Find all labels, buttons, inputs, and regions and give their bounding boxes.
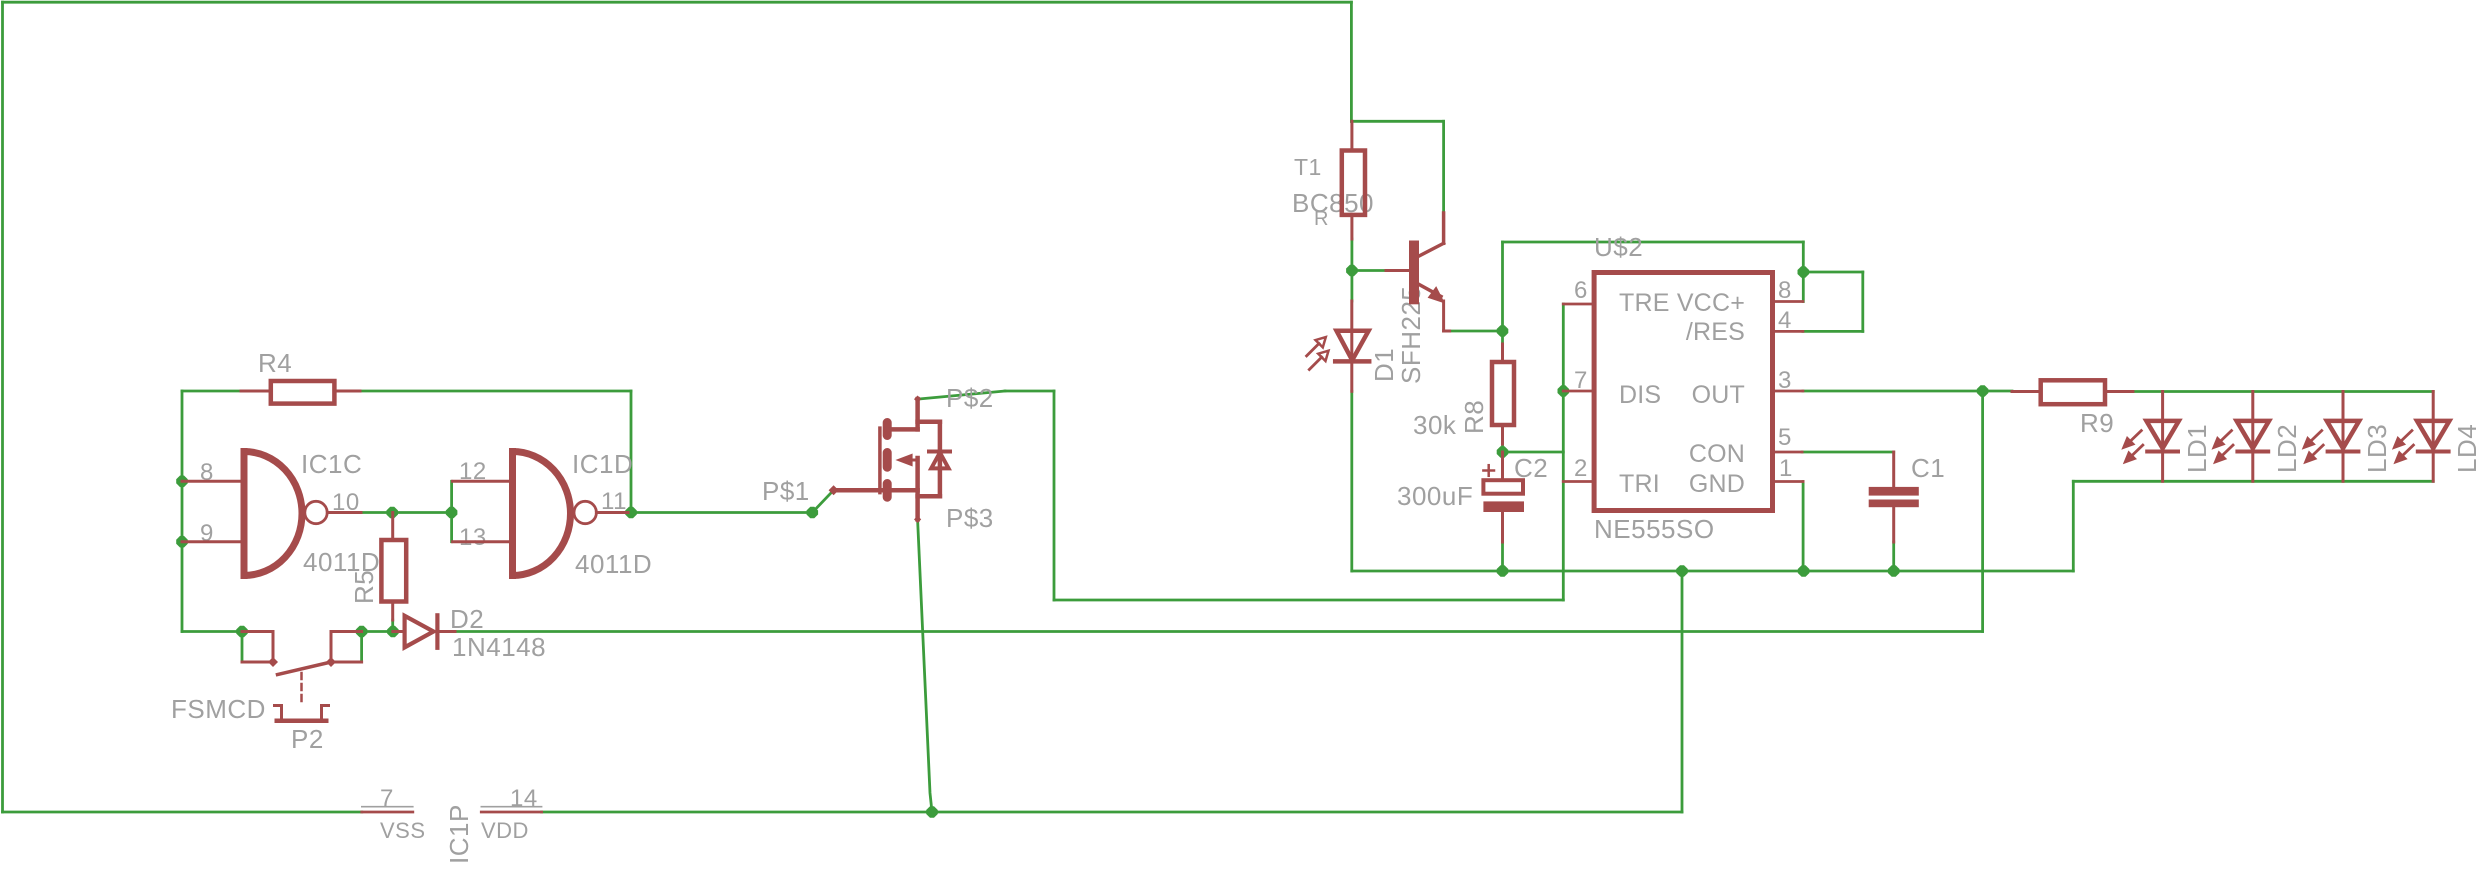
svg-text:VSS: VSS (380, 818, 426, 843)
svg-text:R: R (1314, 208, 1329, 230)
wire gate D input tie (450, 481, 453, 541)
junction (1888, 565, 1900, 577)
svg-text:4: 4 (1778, 307, 1792, 334)
switch P2 actuator link (dashed) (300, 673, 303, 703)
svg-text:1N4148: 1N4148 (452, 632, 546, 662)
wire T1 base (1352, 269, 1386, 272)
wire gate C out (361, 511, 392, 514)
junction (1977, 385, 1989, 397)
wire top link to pin8 (1503, 241, 1804, 244)
capacitor C1 (1869, 452, 1919, 542)
wire pin1 to GND (1802, 482, 1805, 572)
switch contact dot left (268, 657, 278, 667)
switch contact dot right (326, 657, 336, 667)
junction (386, 507, 398, 519)
wire net VDD drop to T1 (1350, 2, 1353, 121)
transistor T1 BC850 (1386, 213, 1450, 331)
IC1P pin underlines (362, 806, 542, 808)
svg-text:LD3: LD3 (2362, 424, 2392, 473)
junction (1497, 565, 1509, 577)
svg-text:FSMCD: FSMCD (171, 694, 266, 724)
wire T1 collector vertical (1442, 121, 1445, 213)
NAND gate IC1C (182, 452, 361, 576)
svg-text:R5: R5 (349, 570, 379, 604)
svg-text:R9: R9 (2080, 408, 2114, 438)
svg-text:OUT: OUT (1692, 381, 1745, 409)
wire switch to D2 (362, 630, 393, 633)
svg-text:R4: R4 (258, 348, 292, 378)
R lead bottom (1350, 215, 1353, 239)
switch P2 lever (278, 662, 332, 675)
wire GND riser to LEDs (2072, 481, 2075, 571)
svg-text:5: 5 (1778, 424, 1792, 451)
svg-text:CON: CON (1689, 440, 1745, 468)
LED LD3 (2302, 392, 2360, 482)
diode D1 SFH235 photodiode (1307, 301, 1370, 391)
wire D2 net long horizontal (455, 630, 1983, 633)
junction (1558, 385, 1570, 397)
junction (1346, 265, 1358, 277)
pin dot P$1 (829, 485, 839, 495)
svg-text:30k: 30k (1413, 410, 1457, 440)
wire pin8-pin4 loop bottom (1803, 330, 1863, 333)
wire OUT pin3 (1803, 390, 1983, 393)
resistor R5 (381, 540, 406, 602)
svg-text:LD1: LD1 (2182, 424, 2212, 473)
resistor R9 (2041, 380, 2105, 404)
svg-text:IC1D: IC1D (572, 449, 633, 479)
wire R4 right (360, 390, 631, 393)
svg-text:P$3: P$3 (946, 503, 994, 533)
R4 lead left (241, 390, 271, 393)
wire pin5 to C1 (1802, 451, 1894, 454)
svg-text:11: 11 (601, 488, 627, 515)
transistor Q1 P-MOSFET (834, 399, 950, 519)
svg-text:D1: D1 (1369, 348, 1399, 382)
wire pin8-pin4 loop right (1861, 272, 1864, 331)
wire P$1 slant (812, 490, 833, 512)
svg-text:TRI: TRI (1619, 470, 1660, 498)
svg-text:300uF: 300uF (1397, 481, 1473, 511)
IC U$2 NE555SO (1594, 273, 1772, 511)
svg-text:P2: P2 (291, 724, 324, 754)
svg-text:7: 7 (380, 785, 394, 812)
svg-text:6: 6 (1574, 277, 1588, 304)
wire LED bottom rail (2073, 480, 2433, 483)
wire C1 bottom link (1892, 542, 1895, 571)
junction (1798, 266, 1810, 278)
junction (926, 806, 938, 818)
wire LED top rail (2133, 390, 2433, 393)
junction (236, 626, 248, 638)
svg-text:T1: T1 (1294, 154, 1322, 180)
svg-text:P$1: P$1 (762, 476, 810, 506)
R8 lead bottom (1501, 425, 1504, 444)
svg-text:VCC+: VCC+ (1677, 289, 1745, 317)
svg-text:LD4: LD4 (2452, 424, 2482, 473)
LED LD4 (2392, 392, 2450, 482)
svg-text:DIS: DIS (1619, 381, 1661, 409)
wire T1 emitter to R8 (1450, 330, 1503, 333)
wire bottom rail left (3, 811, 362, 814)
wire bottom rail right (542, 811, 1682, 814)
R lead top (1350, 121, 1353, 150)
junction (176, 536, 188, 548)
wire feedback drop (630, 391, 633, 513)
wire pin8 drop (1802, 242, 1805, 302)
junction (1497, 325, 1509, 337)
junction (446, 507, 458, 519)
pin dot P$3 (914, 516, 921, 523)
junction (356, 626, 368, 638)
wire C2 bottom link (1501, 542, 1504, 571)
wire node to vertical (1503, 451, 1564, 454)
junction (1497, 446, 1509, 458)
svg-text:13: 13 (459, 524, 487, 551)
LED LD1 (2121, 392, 2179, 482)
wire R4 left (182, 390, 241, 393)
wire R-D1 link (1351, 239, 1354, 301)
svg-text:C1: C1 (1911, 453, 1945, 483)
svg-text:D2: D2 (450, 604, 484, 634)
wire switch left side (241, 632, 244, 663)
wire left column (181, 391, 184, 632)
svg-text:1: 1 (1779, 455, 1793, 482)
wire drain horizontal (1005, 390, 1054, 393)
svg-text:8: 8 (1778, 277, 1792, 304)
wire D1 cathode down (1350, 391, 1353, 571)
svg-text:R8: R8 (1459, 400, 1489, 434)
wire P$1 net (631, 511, 812, 514)
wire GND rail (1352, 570, 2074, 573)
wire mosfet drain riser (1053, 391, 1056, 600)
junction (807, 507, 819, 519)
wire emitter riser (1501, 242, 1504, 331)
LED LD2 (2212, 392, 2270, 482)
R5 lead top (391, 513, 394, 541)
svg-text:TRE: TRE (1619, 289, 1670, 317)
svg-text:IC1P: IC1P (444, 804, 474, 864)
wire net VDD top edge (3, 1, 1352, 4)
wire pin8-pin4 loop top (1803, 271, 1863, 274)
wire to gate D inputs (392, 511, 451, 514)
svg-text:IC1C: IC1C (301, 449, 362, 479)
wire OUT riser down (1981, 391, 1984, 632)
R9 lead left (2012, 390, 2041, 393)
svg-text:14: 14 (510, 785, 538, 812)
wire OUT to R9 (1983, 390, 2012, 393)
resistor R (series with T1 collector) (1342, 151, 1365, 215)
R5 lead bottom (391, 602, 394, 621)
pin dot P$2 (914, 396, 921, 403)
svg-text:/RES: /RES (1686, 318, 1745, 346)
wire drain slant to P$2 (918, 391, 1005, 399)
wire R5 bottom link (391, 620, 394, 632)
U$2 pin stubs (1563, 302, 1803, 482)
wire to T1 collector (1351, 120, 1443, 123)
svg-text:VDD: VDD (481, 818, 529, 843)
diode D2 1N4148 (393, 615, 455, 648)
wire P$3 to bottom rail (918, 520, 932, 812)
svg-text:GND: GND (1689, 470, 1745, 498)
wire R8 top lead link (1501, 331, 1504, 344)
junction (387, 626, 399, 638)
wire to mosfet drain horizontal (1054, 599, 1563, 602)
svg-text:U$2: U$2 (1594, 232, 1643, 262)
wire to switch left (182, 630, 242, 633)
NAND gate IC1D (453, 452, 628, 576)
wire pins 6-7-2 vertical (1562, 304, 1565, 600)
R4 lead right (334, 390, 360, 393)
switch P2 actuator (275, 706, 329, 724)
wire net VDD left edge (1, 2, 4, 812)
wire switch right side (360, 632, 363, 663)
switch P2 FSMCD contacts (242, 632, 362, 663)
power pins IC1P (362, 811, 542, 814)
wire rail riser x1682 (1681, 571, 1684, 812)
svg-text:4011D: 4011D (575, 549, 652, 579)
junction (1676, 565, 1688, 577)
resistor R8 (1492, 362, 1514, 425)
R9 lead right (2105, 390, 2133, 393)
junction (625, 507, 637, 519)
svg-text:2: 2 (1574, 455, 1588, 482)
junction (176, 476, 188, 488)
R8 lead top (1501, 344, 1504, 362)
wire R8 bottom link (1501, 444, 1504, 452)
svg-text:LD2: LD2 (2272, 424, 2302, 473)
capacitor C2 300uF (1483, 452, 1524, 542)
resistor R4 (271, 381, 335, 404)
svg-text:P$2: P$2 (946, 383, 994, 413)
svg-text:NE555SO: NE555SO (1594, 514, 1715, 544)
junction (1798, 565, 1810, 577)
